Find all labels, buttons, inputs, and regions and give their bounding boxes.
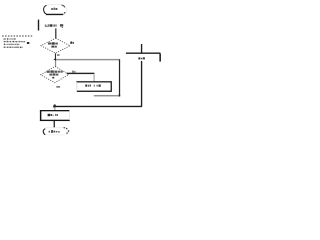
vertical bar glyph left of label row bbox=[38, 20, 39, 31]
process P1 (rectangle right) bbox=[76, 81, 112, 92]
terminator END (bottom stadium) bbox=[43, 128, 69, 135]
decision D2 (diamond) bbox=[41, 66, 69, 82]
text inside D2 row 1 bbox=[47, 70, 63, 72]
wire: line B right descender stub bbox=[159, 54, 161, 62]
junction corner blob bbox=[118, 95, 120, 97]
note dark word blob bbox=[27, 42, 29, 44]
wire: drop into P1 top (light) bbox=[94, 74, 95, 81]
text inside START bbox=[51, 8, 57, 10]
text inside D1 row 2 bbox=[51, 46, 56, 48]
text inside D1 row 1 bbox=[48, 42, 58, 44]
wire: descender of line A at x=119 bbox=[119, 59, 120, 96]
process P2 (rectangle bottom) bbox=[40, 110, 70, 121]
label No (below line B) bbox=[138, 57, 145, 59]
wire: grey return from P1 bottom bbox=[94, 95, 119, 96]
terminator START (top stadium) bbox=[44, 5, 67, 15]
wire: vertical x=141 lower segment bbox=[141, 61, 142, 107]
note text row 3 bbox=[4, 44, 19, 45]
wire: vertical x=141 upper segment bbox=[141, 44, 142, 53]
note text row 1 bbox=[4, 38, 16, 40]
dark glyph at D2 bottom bbox=[52, 77, 54, 79]
wire: grey stub into P2 top bbox=[54, 107, 55, 110]
wire: bottom return line into main flow bbox=[55, 106, 142, 107]
wire: connector into decision D1 bbox=[55, 28, 56, 38]
decision D1 (diamond) bbox=[41, 38, 70, 53]
note text row 4 bbox=[4, 47, 23, 49]
wire: return line A (grey, rightwards) bbox=[56, 59, 120, 60]
text inside P2 bbox=[48, 114, 58, 116]
wire: P2 bottom to END terminator bbox=[54, 121, 55, 128]
label No (right of D1) bbox=[70, 42, 74, 44]
label No (right of D2) bbox=[72, 71, 76, 73]
label row under START bbox=[45, 24, 63, 28]
arrowhead of return wire into main connector bbox=[53, 58, 56, 60]
arrowhead at end of bottom return bbox=[53, 105, 56, 108]
note (annotation) dashed leader line bbox=[2, 35, 33, 37]
text inside D2 row 2 bbox=[49, 73, 58, 75]
text inside END bbox=[49, 130, 60, 133]
wire: D2 right branch to process P1 bbox=[67, 73, 95, 74]
text inside P1 bbox=[85, 85, 100, 87]
wire: line B top right bbox=[126, 53, 160, 54]
wire: D1 bottom to D2 top bbox=[55, 53, 56, 60]
label Yes (below D1) bbox=[57, 54, 60, 56]
label Yes (below D2) bbox=[56, 86, 60, 88]
note text row 2 bbox=[4, 41, 25, 43]
